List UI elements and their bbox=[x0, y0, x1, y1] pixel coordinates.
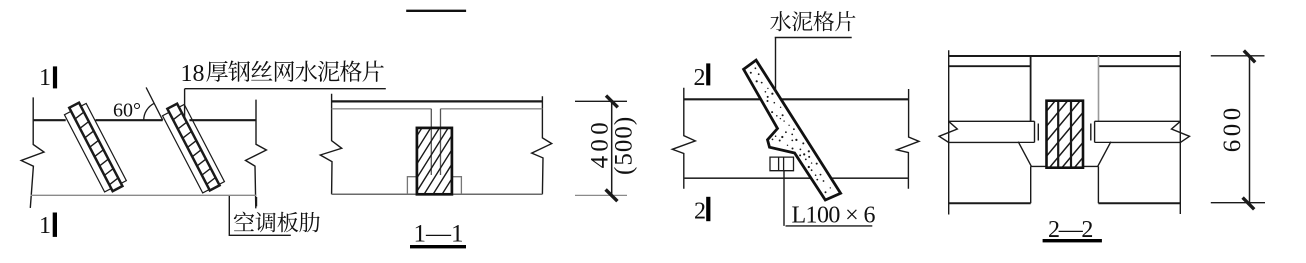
svg-text:(500): (500) bbox=[610, 116, 637, 175]
svg-text:18: 18 bbox=[181, 61, 205, 87]
svg-text:L100 × 6: L100 × 6 bbox=[792, 203, 876, 229]
svg-text:1: 1 bbox=[39, 213, 51, 239]
svg-text:2: 2 bbox=[694, 65, 706, 91]
svg-text:1: 1 bbox=[39, 65, 51, 91]
svg-text:400: 400 bbox=[586, 118, 613, 168]
svg-text:60°: 60° bbox=[113, 100, 141, 122]
svg-text:2: 2 bbox=[694, 198, 706, 224]
svg-text:1—1: 1—1 bbox=[414, 221, 464, 248]
svg-text:600: 600 bbox=[1219, 104, 1246, 152]
